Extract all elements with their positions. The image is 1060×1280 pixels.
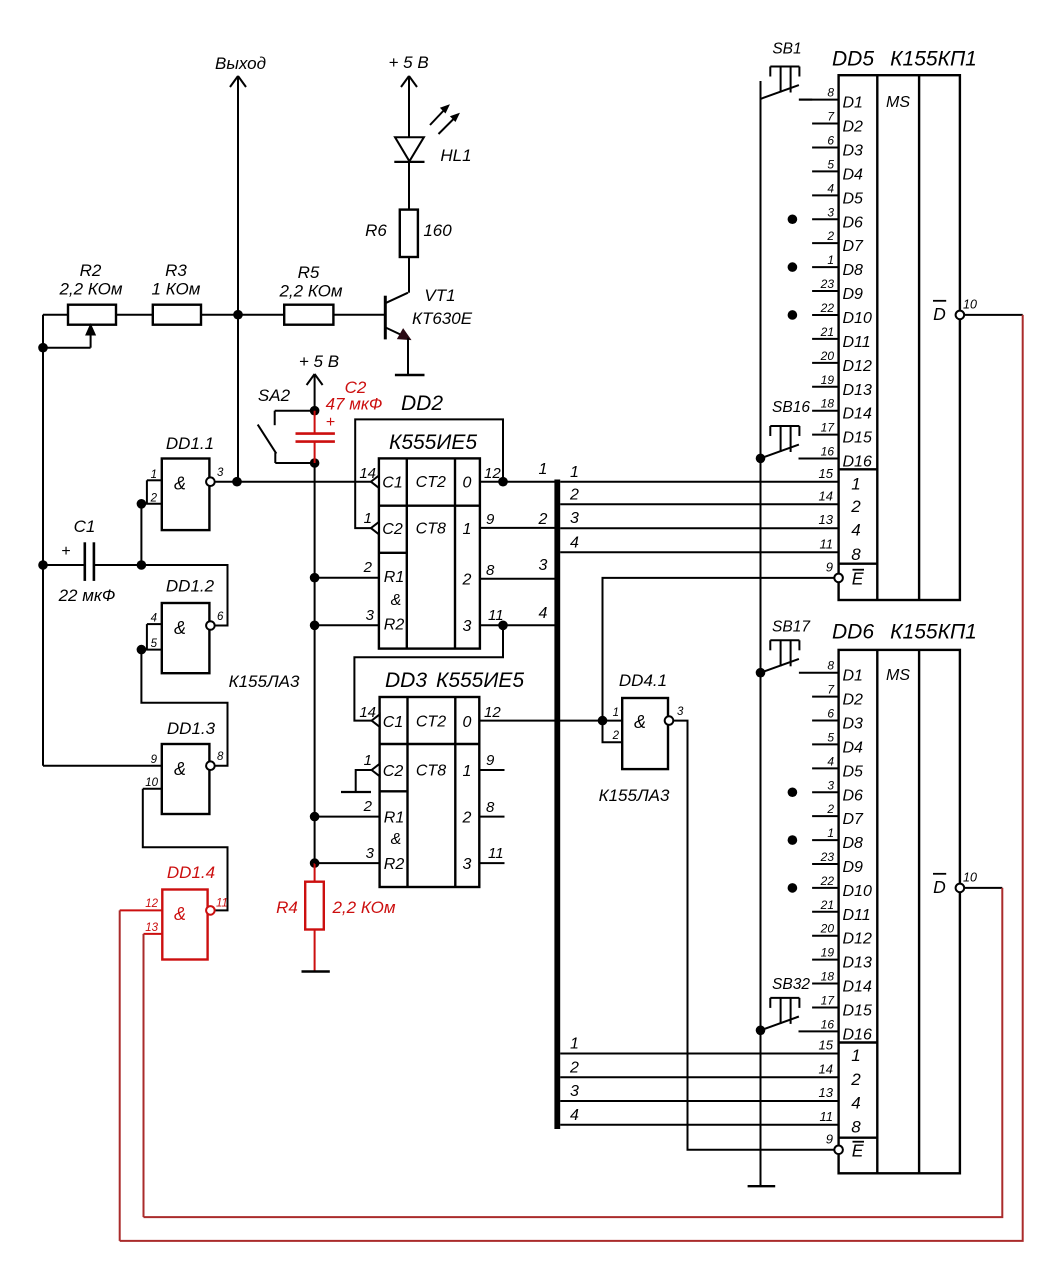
gate DD4.1 NAND — [599, 671, 684, 805]
svg-text:R6: R6 — [365, 221, 387, 240]
svg-text:D14: D14 — [843, 979, 872, 996]
wire C1 node to DD1.2 output — [141, 565, 227, 626]
svg-text:1: 1 — [151, 469, 157, 481]
svg-text:1: 1 — [364, 510, 372, 527]
wire DD6 D13 pin 19 — [812, 959, 839, 961]
wire DD1.3 pin10 to DD1.4 output — [143, 789, 228, 911]
multiplexer DD5 К155КП1 — [832, 48, 977, 601]
svg-text:К155КП1: К155КП1 — [890, 48, 977, 71]
node dot DD5 D8 — [788, 262, 798, 272]
svg-text:R4: R4 — [276, 898, 298, 917]
wire DD1.2 inputs to DD1.3 output — [141, 650, 227, 766]
wire red feedback DD5 pin10 — [120, 315, 1023, 1241]
svg-text:4: 4 — [151, 613, 157, 625]
pin 1 wedge DD2 C2 — [371, 522, 379, 534]
svg-text:DD2: DD2 — [401, 392, 443, 415]
junction dot DD4.1 input — [598, 716, 608, 726]
wire DD2 output 2 pin 8 — [480, 578, 555, 580]
svg-text:8: 8 — [217, 751, 224, 763]
wire DD3 R1 input — [315, 816, 380, 818]
svg-text:9: 9 — [486, 511, 495, 528]
wire DD2 feedback output0 to C2 — [355, 419, 503, 528]
svg-text:MS: MS — [886, 667, 910, 684]
wire reset line to counters — [314, 463, 316, 863]
svg-text:18: 18 — [821, 397, 835, 411]
junction dot C2 bottom — [310, 458, 320, 468]
svg-text:13: 13 — [145, 922, 158, 934]
button SB32 — [761, 976, 811, 1030]
svg-text:SB32: SB32 — [772, 976, 810, 993]
svg-text:SB1: SB1 — [772, 41, 801, 58]
wire DD6 D16 pin 16 — [799, 1030, 839, 1032]
wire DD5 D16 pin 16 — [799, 458, 839, 460]
svg-text:D13: D13 — [843, 955, 872, 972]
svg-text:DD4.1: DD4.1 — [619, 671, 667, 690]
svg-text:К555ИЕ5: К555ИЕ5 — [436, 669, 524, 692]
svg-text:&: & — [391, 831, 402, 848]
svg-text:3: 3 — [570, 510, 579, 527]
svg-text:CT2: CT2 — [416, 474, 446, 491]
wire DD6 D15 pin 17 — [812, 1006, 839, 1008]
svg-text:4: 4 — [570, 534, 579, 551]
divider DD6 selects — [839, 1041, 878, 1043]
wire DD5 E to DD4.1 input — [603, 578, 835, 721]
gate DD1.4 NAND red — [120, 863, 228, 960]
transistor VT1 КТ630Е — [385, 286, 472, 374]
junction dot Выход/main rail — [233, 310, 243, 320]
svg-text:D7: D7 — [843, 238, 865, 255]
svg-text:К155ЛА3: К155ЛА3 — [229, 672, 300, 691]
wire DD5 D12 pin 20 — [812, 362, 839, 364]
junction dot DD1.1 inputs — [137, 499, 147, 509]
svg-text:23: 23 — [820, 850, 835, 864]
svg-text:9: 9 — [826, 560, 833, 575]
svg-text:SB17: SB17 — [772, 619, 811, 636]
svg-text:16: 16 — [821, 1017, 835, 1031]
wire DD6 D1 pin 8 — [799, 672, 839, 674]
svg-text:6: 6 — [827, 707, 834, 721]
svg-text:D3: D3 — [843, 716, 864, 733]
svg-text:2: 2 — [462, 810, 472, 827]
wire DD3 R2 input — [315, 862, 380, 864]
junction dot DD2 R1 — [310, 573, 320, 583]
svg-text:D11: D11 — [843, 334, 871, 351]
svg-text:DD3: DD3 — [385, 669, 427, 692]
svg-text:D1: D1 — [843, 668, 863, 685]
svg-text:D15: D15 — [843, 1002, 872, 1019]
svg-text:20: 20 — [820, 349, 835, 363]
svg-text:0: 0 — [463, 475, 472, 492]
resistor R6 160 — [365, 210, 452, 293]
svg-text:11: 11 — [488, 607, 504, 624]
LED HL1 — [394, 106, 471, 210]
svg-text:D10: D10 — [843, 883, 872, 900]
svg-text:16: 16 — [821, 445, 835, 459]
wire DD3 output 3 pin 11 — [479, 862, 504, 864]
wire DD5 D10 pin 22 — [812, 314, 839, 316]
svg-text:12: 12 — [145, 898, 158, 910]
svg-text:D8: D8 — [843, 835, 864, 852]
svg-text:6: 6 — [217, 611, 224, 623]
junction dot R2 wiper — [38, 343, 48, 353]
svg-text:C1: C1 — [382, 475, 402, 492]
svg-text:2: 2 — [462, 572, 472, 589]
wire DD5 D2 pin 7 — [812, 123, 839, 125]
svg-text:R1: R1 — [384, 810, 404, 827]
node dot DD5 D10 — [788, 310, 798, 320]
svg-text:R2: R2 — [384, 617, 405, 634]
svg-text:D15: D15 — [843, 430, 872, 447]
junction dot DD3 R2 — [310, 858, 320, 868]
junction dot DD1.1 output node — [232, 477, 242, 487]
junction dot C1 right — [137, 560, 147, 570]
svg-text:4: 4 — [827, 181, 834, 195]
svg-text:SA2: SA2 — [258, 386, 291, 405]
gate DD1.2 NAND — [141, 577, 224, 674]
svg-text:D2: D2 — [843, 692, 864, 709]
wire DD3 output 1 pin 9 — [479, 769, 504, 771]
wire DD2 R2 input — [315, 624, 379, 626]
wire DD6 D2 pin 7 — [812, 696, 839, 698]
svg-text:2: 2 — [850, 1070, 861, 1089]
wire DD2 R1 input — [315, 577, 379, 579]
power +5 В top — [389, 53, 429, 137]
svg-text:&: & — [174, 618, 186, 638]
svg-text:3: 3 — [463, 618, 472, 635]
ground R4 — [302, 970, 330, 972]
svg-text:11: 11 — [216, 898, 228, 910]
svg-text:D3: D3 — [843, 142, 864, 159]
wire DD5 D7 pin 2 — [812, 242, 839, 244]
svg-text:D7: D7 — [843, 811, 865, 828]
svg-text:5: 5 — [151, 638, 158, 650]
svg-text:21: 21 — [820, 898, 834, 912]
svg-text:3: 3 — [827, 205, 834, 219]
svg-text:SB16: SB16 — [772, 399, 810, 416]
svg-text:5: 5 — [827, 157, 834, 171]
junction dot C2 top — [310, 406, 320, 416]
wire DD1.1 output to DD2 C1 — [237, 481, 371, 483]
svg-text:2: 2 — [612, 730, 620, 742]
button SB16 — [761, 399, 811, 458]
wire DD5 D1 pin 8 — [799, 99, 839, 101]
svg-text:2: 2 — [826, 802, 834, 816]
wire SB1 to DD5 D1 — [799, 99, 812, 101]
wire DD5 D14 pin 18 — [812, 410, 839, 412]
wire bus to DD6 select 1 pin 15 — [560, 1053, 838, 1055]
output D DD6 pin 10 — [933, 871, 1002, 898]
wire main horizontal rail y=315 — [43, 314, 385, 316]
svg-text:R3: R3 — [165, 261, 187, 280]
wire DD3 output 2 pin 8 — [479, 816, 504, 818]
ground SB rail — [748, 1185, 776, 1187]
wire DD5 D5 pin 4 — [812, 194, 839, 196]
svg-text:11: 11 — [820, 536, 834, 551]
svg-text:D4: D4 — [843, 739, 864, 756]
wire DD6 D9 pin 23 — [812, 863, 839, 865]
svg-text:1: 1 — [851, 1046, 860, 1065]
svg-text:9: 9 — [486, 752, 495, 769]
button SB17 — [761, 619, 812, 673]
node dot DD6 D8 — [788, 835, 798, 845]
svg-text:D9: D9 — [843, 286, 864, 303]
svg-text:2: 2 — [363, 559, 373, 576]
wire DD6 D6 pin 3 — [812, 791, 839, 793]
svg-text:3: 3 — [570, 1083, 579, 1100]
svg-text:20: 20 — [820, 922, 835, 936]
svg-text:2,2 КОм: 2,2 КОм — [278, 282, 342, 301]
svg-text:R2: R2 — [80, 261, 102, 280]
svg-text:CT2: CT2 — [416, 714, 446, 731]
svg-text:1: 1 — [364, 752, 372, 769]
svg-text:К155ЛА3: К155ЛА3 — [599, 786, 670, 805]
svg-text:9: 9 — [826, 1132, 833, 1147]
enable input E DD6 pin 9 — [826, 1132, 864, 1161]
wire red DD1.4 pin12 vertical — [119, 910, 121, 1241]
svg-text:R5: R5 — [298, 263, 320, 282]
svg-text:19: 19 — [821, 946, 835, 960]
multiplexer DD6 К155КП1 — [832, 621, 977, 1174]
button SB1 — [761, 41, 802, 99]
svg-text:D14: D14 — [843, 406, 872, 423]
svg-text:К155КП1: К155КП1 — [890, 621, 977, 644]
wire DD6 D7 pin 2 — [812, 815, 839, 817]
wire bus to DD6 select 4 pin 13 — [560, 1100, 838, 1102]
svg-text:21: 21 — [820, 325, 834, 339]
gate DD1.3 NAND — [43, 719, 224, 814]
svg-text:1: 1 — [827, 253, 834, 267]
svg-text:DD1.2: DD1.2 — [166, 577, 215, 596]
node Выход output arrow — [215, 54, 266, 482]
svg-text:D13: D13 — [843, 382, 872, 399]
svg-text:D2: D2 — [843, 119, 864, 136]
node dot DD6 D10 — [788, 883, 798, 893]
svg-text:&: & — [391, 592, 402, 609]
svg-text:18: 18 — [821, 970, 835, 984]
svg-text:2: 2 — [826, 229, 834, 243]
wire DD6 D10 pin 22 — [812, 887, 839, 889]
wire bus to DD5 select 8 pin 11 — [560, 551, 838, 553]
capacitor C1 22 мкФ — [43, 517, 141, 605]
wire DD5 D8 pin 1 — [812, 266, 839, 268]
svg-text:13: 13 — [819, 1085, 834, 1100]
wire red feedback DD6 pin10 — [144, 888, 1003, 1217]
svg-text:D11: D11 — [843, 907, 871, 924]
pin 14 wedge DD2 C1 — [371, 476, 379, 488]
svg-text:2: 2 — [150, 493, 158, 505]
svg-text:3: 3 — [827, 778, 834, 792]
svg-text:3: 3 — [366, 607, 375, 624]
wire bus to DD5 select 1 pin 15 — [560, 481, 838, 483]
divider DD6 E cell — [839, 1136, 878, 1138]
svg-text:CT8: CT8 — [416, 521, 446, 538]
junction dot DD2 R2 — [310, 621, 320, 631]
svg-text:9: 9 — [151, 754, 158, 766]
svg-text:R2: R2 — [384, 856, 405, 873]
wire SB common rail — [760, 81, 762, 1185]
wire DD5 D13 pin 19 — [812, 386, 839, 388]
node dot DD6 D6 — [788, 787, 798, 797]
svg-text:14: 14 — [819, 1061, 833, 1076]
junction dot DD3 R1 — [310, 812, 320, 822]
svg-text:3: 3 — [677, 706, 684, 718]
wire DD3 C2 stub — [356, 770, 372, 792]
svg-text:+ 5 В: + 5 В — [389, 53, 429, 72]
svg-text:+: + — [326, 414, 335, 431]
svg-text:12: 12 — [484, 704, 501, 721]
svg-text:8: 8 — [486, 562, 495, 579]
wire bus to DD5 select 2 pin 14 — [560, 503, 838, 505]
svg-text:R1: R1 — [384, 569, 404, 586]
svg-text:1: 1 — [613, 707, 619, 719]
svg-text:DD1.1: DD1.1 — [166, 434, 214, 453]
svg-text:2: 2 — [569, 1059, 579, 1076]
svg-text:1: 1 — [463, 521, 472, 538]
svg-text:D5: D5 — [843, 190, 864, 207]
svg-text:D: D — [933, 877, 946, 897]
svg-text:1: 1 — [463, 763, 472, 780]
svg-text:DD1.4: DD1.4 — [167, 863, 215, 882]
svg-text:8: 8 — [851, 1117, 861, 1136]
svg-text:Выход: Выход — [215, 54, 266, 73]
svg-text:DD5: DD5 — [832, 48, 874, 71]
svg-text:2: 2 — [538, 511, 548, 528]
divider DD5 E cell — [839, 563, 878, 565]
svg-text:4: 4 — [827, 754, 834, 768]
svg-text:13: 13 — [819, 512, 834, 527]
wire DD2 pin11 to DD3 C1 — [354, 625, 503, 720]
wire DD6 D11 pin 21 — [812, 911, 839, 913]
wire DD6 D5 pin 4 — [812, 767, 839, 769]
svg-text:11: 11 — [820, 1109, 834, 1124]
junction dot DD2 pin12 feedback — [498, 477, 508, 487]
svg-text:17: 17 — [821, 993, 836, 1007]
svg-text:C2: C2 — [383, 763, 404, 780]
wire bus to DD6 select 2 pin 14 — [560, 1076, 838, 1078]
svg-text:3: 3 — [366, 845, 375, 862]
svg-text:3: 3 — [217, 467, 224, 479]
svg-text:22: 22 — [820, 874, 835, 888]
svg-text:22: 22 — [820, 301, 835, 315]
svg-text:19: 19 — [821, 373, 835, 387]
svg-text:1: 1 — [570, 464, 579, 481]
switch SA2 — [258, 386, 315, 463]
svg-text:0: 0 — [463, 714, 472, 731]
svg-text:DD1.3: DD1.3 — [167, 719, 216, 738]
wire DD2 output 1 pin 9 — [480, 527, 555, 529]
svg-text:6: 6 — [827, 133, 834, 147]
svg-text:11: 11 — [488, 845, 504, 862]
svg-text:VT1: VT1 — [424, 286, 455, 305]
svg-text:&: & — [174, 759, 186, 779]
wire DD1.1 inputs to C1 node — [140, 504, 142, 565]
wire DD5 D9 pin 23 — [812, 290, 839, 292]
svg-text:E: E — [852, 569, 864, 589]
svg-text:D16: D16 — [843, 454, 872, 471]
svg-text:10: 10 — [963, 871, 977, 885]
svg-text:&: & — [634, 712, 646, 732]
wire DD5 D3 pin 6 — [812, 146, 839, 148]
svg-text:1: 1 — [570, 1036, 579, 1053]
power +5 В SA2 node — [299, 352, 339, 411]
svg-text:15: 15 — [819, 1038, 834, 1053]
svg-text:8: 8 — [827, 86, 834, 100]
svg-text:1: 1 — [851, 474, 860, 493]
svg-text:2: 2 — [569, 486, 579, 503]
svg-text:2: 2 — [850, 497, 861, 516]
wire DD5 D15 pin 17 — [812, 434, 839, 436]
wire DD5 D4 pin 5 — [812, 170, 839, 172]
junction dot SB17 — [756, 668, 766, 678]
svg-text:10: 10 — [145, 777, 158, 789]
svg-text:3: 3 — [463, 856, 472, 873]
svg-text:C1: C1 — [383, 714, 403, 731]
svg-text:HL1: HL1 — [440, 146, 471, 165]
svg-text:23: 23 — [820, 277, 835, 291]
svg-text:47 мкФ: 47 мкФ — [326, 395, 383, 414]
svg-text:D4: D4 — [843, 166, 864, 183]
wire DD4.1 output to DD6 E — [673, 721, 834, 1150]
svg-text:+ 5 В: + 5 В — [299, 352, 339, 371]
svg-text:C1: C1 — [74, 517, 96, 536]
svg-text:D5: D5 — [843, 763, 864, 780]
svg-text:D9: D9 — [843, 859, 864, 876]
svg-text:4: 4 — [539, 605, 548, 622]
svg-text:1: 1 — [539, 461, 548, 478]
svg-text:+: + — [61, 543, 70, 560]
wire DD6 D3 pin 6 — [812, 720, 839, 722]
svg-text:8: 8 — [486, 799, 495, 816]
resistor R5 2,2 КОм — [278, 263, 342, 325]
svg-text:&: & — [174, 904, 186, 924]
svg-text:D8: D8 — [843, 262, 864, 279]
svg-text:КТ630Е: КТ630Е — [412, 309, 473, 328]
svg-text:D1: D1 — [843, 95, 863, 112]
ground VT1 emitter — [395, 374, 425, 376]
svg-text:DD6: DD6 — [832, 621, 874, 644]
junction dot DD2 pin11 to DD3 — [498, 621, 508, 631]
wire DD2 output 3 pin 11 — [480, 624, 555, 626]
svg-text:17: 17 — [821, 421, 836, 435]
enable input E DD5 pin 9 — [826, 560, 864, 589]
svg-text:D16: D16 — [843, 1026, 872, 1043]
svg-text:D6: D6 — [843, 214, 864, 231]
svg-text:MS: MS — [886, 94, 910, 111]
svg-text:160: 160 — [423, 221, 452, 240]
svg-text:D10: D10 — [843, 310, 872, 327]
counter DD2 К555ИЕ5 — [379, 392, 480, 649]
divider DD5 selects — [839, 468, 878, 470]
wire left rail R2 to DD1.3 pin9 — [42, 348, 44, 766]
svg-text:1: 1 — [827, 826, 834, 840]
wire red DD1.4 pin13 vertical — [143, 934, 145, 1217]
svg-text:8: 8 — [851, 545, 861, 564]
wire DD6 D12 pin 20 — [812, 935, 839, 937]
resistor R3 1 КОм — [152, 261, 201, 325]
svg-text:8: 8 — [827, 659, 834, 673]
svg-text:D12: D12 — [843, 358, 872, 375]
svg-text:2: 2 — [363, 798, 373, 815]
wire DD5 D6 pin 3 — [812, 218, 839, 220]
wire DD2 output 0 pin 12 — [480, 481, 555, 483]
svg-text:1 КОм: 1 КОм — [152, 280, 201, 299]
svg-text:14: 14 — [359, 704, 376, 721]
junction dot SB16 — [756, 454, 766, 464]
wire bus to DD6 select 8 pin 11 — [560, 1124, 838, 1126]
svg-text:К555ИЕ5: К555ИЕ5 — [389, 431, 477, 454]
pin 14 wedge DD3 C1 — [372, 714, 380, 726]
resistor R4 2,2 КОм red — [276, 863, 396, 970]
